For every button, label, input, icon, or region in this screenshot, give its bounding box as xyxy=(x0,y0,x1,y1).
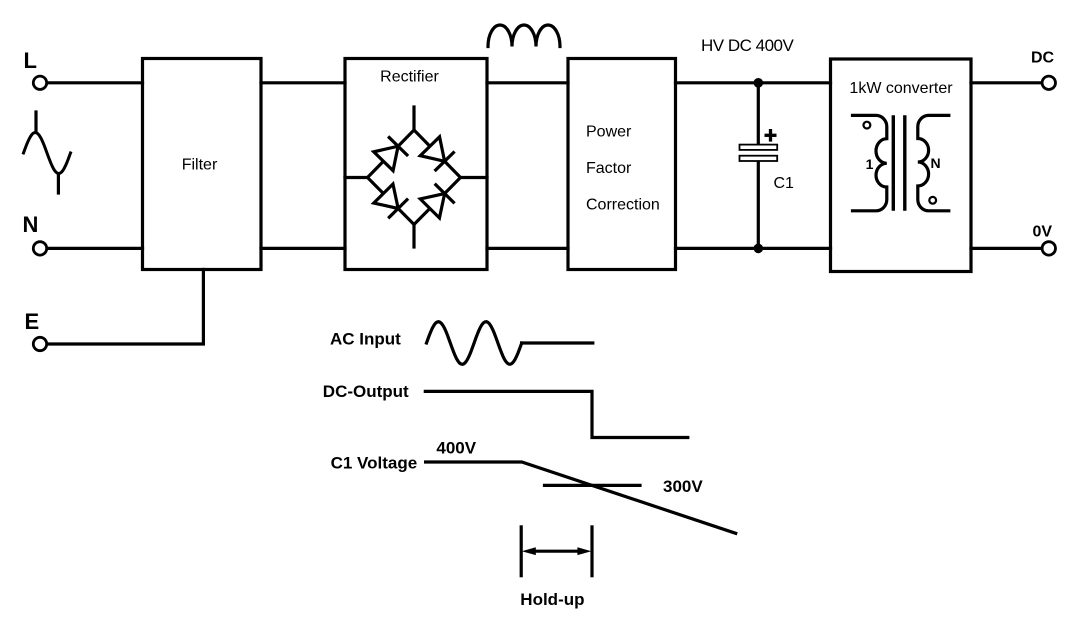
svg-text:L: L xyxy=(24,48,37,73)
terminal L xyxy=(33,76,46,89)
node junction bottom of C1 xyxy=(754,244,764,254)
AC source symbol top lead xyxy=(34,112,37,132)
wire E to Filter bottom xyxy=(48,270,204,345)
svg-text:Correction: Correction xyxy=(586,196,660,213)
bridge top stub xyxy=(412,107,415,130)
wire converter to 0V terminal xyxy=(971,247,1041,250)
wire Filter to Rectifier bottom xyxy=(261,247,345,250)
transformer T1 primary phase dot xyxy=(864,122,871,129)
node junction top of C1 xyxy=(754,78,764,88)
svg-text:N: N xyxy=(930,155,940,171)
AC source symbol bottom lead xyxy=(57,174,60,193)
waveform C1 Voltage decay xyxy=(426,462,736,533)
ripple waveform above rectifier output xyxy=(488,25,560,46)
diode D2 upper-right xyxy=(420,136,455,171)
wire N to Filter xyxy=(48,247,143,250)
svg-text:DC: DC xyxy=(1031,50,1055,67)
wire PFC to converter top (HV DC bus) xyxy=(676,81,831,84)
wire Filter to Rectifier top xyxy=(261,81,345,84)
capacitor C1 bottom lead xyxy=(757,161,760,248)
svg-text:DC-Output: DC-Output xyxy=(323,382,409,401)
waveform DC-Output step xyxy=(425,391,688,437)
bridge bottom stub xyxy=(412,225,415,248)
svg-text:Power: Power xyxy=(586,123,632,140)
hold-up left marker xyxy=(520,527,523,576)
svg-text:400V: 400V xyxy=(436,439,476,458)
hold-up arrowhead right xyxy=(577,547,591,555)
bridge left stub xyxy=(345,176,368,179)
capacitor C1 top plate xyxy=(740,145,778,150)
svg-text:C1: C1 xyxy=(774,175,795,192)
capacitor C1 bottom plate xyxy=(740,156,778,161)
svg-text:C1 Voltage: C1 Voltage xyxy=(331,454,418,473)
wire L to Filter xyxy=(48,81,143,84)
terminal DC xyxy=(1042,76,1055,89)
block Rectifier xyxy=(345,59,487,270)
block PFC Power Factor Correction xyxy=(568,59,676,270)
block Filter xyxy=(143,59,262,270)
waveform AC Input xyxy=(427,322,522,365)
terminal E xyxy=(33,337,46,350)
AC source symbol sine xyxy=(24,133,71,174)
waveform AC Input flat tail xyxy=(522,341,593,344)
bridge diamond xyxy=(368,130,461,225)
terminal N xyxy=(33,242,46,255)
diode D1 upper-left xyxy=(373,136,408,171)
svg-text:0V: 0V xyxy=(1033,224,1053,241)
transformer T1 core xyxy=(893,117,905,209)
svg-text:1kW converter: 1kW converter xyxy=(849,80,953,97)
svg-text:Factor: Factor xyxy=(586,160,632,177)
300V reference line xyxy=(545,484,641,487)
svg-text:1: 1 xyxy=(866,156,874,172)
bridge right stub xyxy=(461,176,488,179)
svg-text:Filter: Filter xyxy=(182,157,218,174)
wire Rectifier to PFC bottom xyxy=(487,247,568,250)
hold-up right marker xyxy=(590,527,593,576)
svg-text:300V: 300V xyxy=(663,477,703,496)
svg-text:AC Input: AC Input xyxy=(330,330,401,349)
wire Rectifier to PFC top xyxy=(487,81,568,84)
hold-up arrowhead left xyxy=(522,547,536,555)
terminal 0V xyxy=(1042,242,1055,255)
capacitor C1 plus polarity mark xyxy=(765,129,777,142)
capacitor C1 top lead xyxy=(757,83,760,145)
svg-text:Rectifier: Rectifier xyxy=(380,69,439,86)
svg-text:HV DC 400V: HV DC 400V xyxy=(701,36,794,55)
diode D3 lower-left xyxy=(373,184,408,219)
wire PFC to converter bottom xyxy=(676,247,831,250)
transformer T1 secondary phase dot xyxy=(929,197,936,204)
transformer T1 primary winding xyxy=(853,115,887,210)
svg-text:Hold-up: Hold-up xyxy=(520,590,584,609)
svg-text:N: N xyxy=(23,212,39,237)
block U1 1kW converter xyxy=(831,59,972,272)
hold-up arrow shaft xyxy=(531,550,582,553)
transformer T1 secondary winding xyxy=(918,115,949,210)
diode D4 lower-right xyxy=(420,184,455,219)
wire converter to DC terminal xyxy=(971,81,1041,84)
svg-text:E: E xyxy=(25,309,40,334)
